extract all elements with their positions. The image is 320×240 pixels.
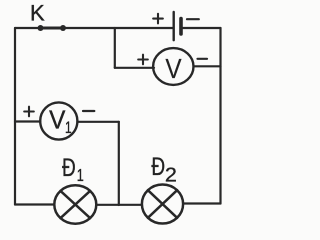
- wire branch to voltmeter V plus side: [115, 67, 154, 69]
- wire voltmeter V1 to branch corner: [77, 121, 118, 123]
- voltmeter V + label: [138, 55, 148, 65]
- battery: [174, 12, 181, 40]
- lamp D1: [54, 185, 96, 223]
- label V1 inside voltmeter V1: [49, 106, 72, 138]
- svg-text:K: K: [30, 0, 45, 25]
- svg-text:Đ: Đ: [151, 153, 165, 181]
- wire left vertical: [14, 28, 16, 205]
- wire bottom-left to lamp D1: [15, 203, 54, 205]
- battery + label: [153, 14, 163, 24]
- label D1: [62, 153, 84, 185]
- wire right vertical: [219, 28, 221, 204]
- wire lamp D2 to right vertical: [183, 202, 220, 204]
- label D2: [151, 153, 177, 187]
- lamp D2: [142, 185, 183, 224]
- svg-text:1: 1: [65, 119, 72, 138]
- switch K (closed): [38, 25, 67, 31]
- voltmeter V1 - label: [83, 110, 94, 112]
- wire lamp D1 to junction to lamp D2: [96, 204, 142, 206]
- voltmeter V1 + label: [24, 107, 34, 117]
- svg-text:Đ: Đ: [62, 153, 76, 181]
- wire switch to battery: [63, 27, 173, 29]
- voltmeter V: [153, 48, 193, 85]
- wire voltmeter V to right vertical: [194, 65, 221, 67]
- wire voltmeter branch vertical: [114, 28, 116, 68]
- voltmeter V - label: [198, 58, 208, 60]
- wire battery to top-right corner: [181, 27, 221, 29]
- battery - label: [187, 18, 199, 20]
- wire left vertical to voltmeter V1: [15, 120, 40, 122]
- voltmeter V1: [40, 102, 77, 139]
- wire branch down to lamp junction: [118, 122, 120, 205]
- wire top-left segment: [15, 27, 40, 29]
- svg-text:1: 1: [77, 166, 84, 186]
- svg-text:2: 2: [165, 164, 177, 186]
- svg-text:V: V: [165, 52, 182, 84]
- svg-text:V: V: [49, 106, 66, 135]
